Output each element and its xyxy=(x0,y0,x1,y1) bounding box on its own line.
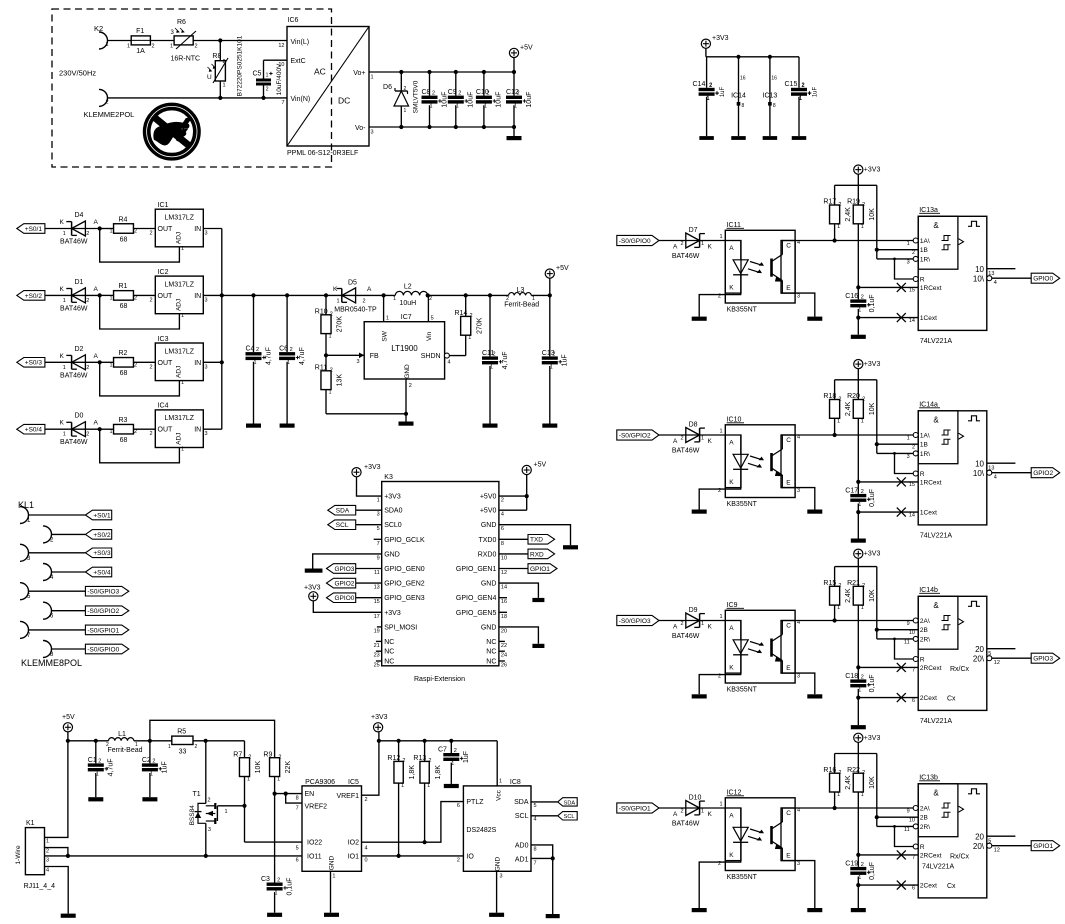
svg-text:R6: R6 xyxy=(177,19,186,26)
svg-text:1Cext: 1Cext xyxy=(920,510,937,517)
svg-text:C15: C15 xyxy=(785,81,798,88)
svg-text:Rx/Cx: Rx/Cx xyxy=(950,853,970,860)
svg-text:R: R xyxy=(920,471,925,478)
svg-text:1-Wire: 1-Wire xyxy=(15,845,22,865)
svg-text:2: 2 xyxy=(330,368,333,374)
svg-text:GPIO_GCLK: GPIO_GCLK xyxy=(384,537,425,544)
svg-text:1: 1 xyxy=(701,809,704,815)
svg-text:4: 4 xyxy=(448,360,451,366)
svg-text:14: 14 xyxy=(909,318,915,324)
svg-text:2: 2 xyxy=(404,86,407,92)
svg-text:2: 2 xyxy=(457,858,460,864)
svg-text:10: 10 xyxy=(975,265,984,274)
svg-text:74LV221A: 74LV221A xyxy=(922,864,955,871)
svg-text:2: 2 xyxy=(428,758,431,764)
svg-text:1: 1 xyxy=(247,777,250,783)
svg-text:K3: K3 xyxy=(384,474,393,481)
svg-text:NC: NC xyxy=(486,659,496,666)
svg-text:10uH: 10uH xyxy=(399,300,416,307)
svg-text:16R-NTC: 16R-NTC xyxy=(171,56,201,63)
svg-text:LM317LZ: LM317LZ xyxy=(165,215,195,222)
svg-text:R: R xyxy=(920,657,925,664)
svg-text:GPIO0: GPIO0 xyxy=(1033,276,1053,283)
svg-text:1: 1 xyxy=(837,792,840,798)
svg-text:2B: 2B xyxy=(920,627,928,634)
svg-text:IC14b: IC14b xyxy=(919,587,938,594)
svg-text:1: 1 xyxy=(63,432,66,438)
svg-text:SMLVT5V0: SMLVT5V0 xyxy=(412,80,419,113)
svg-text:U: U xyxy=(207,74,212,81)
svg-text:Vo-: Vo- xyxy=(355,125,366,132)
svg-text:2: 2 xyxy=(912,444,915,450)
svg-text:IO: IO xyxy=(466,853,474,860)
svg-text:IC4: IC4 xyxy=(158,403,169,410)
svg-text:6: 6 xyxy=(912,885,915,891)
svg-text:10: 10 xyxy=(501,555,507,561)
svg-text:OUT: OUT xyxy=(158,293,174,300)
svg-text:2,4K: 2,4K xyxy=(845,207,852,222)
svg-text:10: 10 xyxy=(975,460,984,469)
svg-text:2: 2 xyxy=(680,436,683,442)
svg-text:IC14a: IC14a xyxy=(919,401,938,408)
svg-text:IN: IN xyxy=(194,293,201,300)
svg-text:2: 2 xyxy=(363,299,366,305)
svg-text:IC2: IC2 xyxy=(158,269,169,276)
svg-text:K: K xyxy=(729,665,734,672)
svg-text:GPIO_GEN2: GPIO_GEN2 xyxy=(384,581,425,588)
svg-text:4: 4 xyxy=(994,475,997,481)
svg-text:2: 2 xyxy=(149,431,152,437)
svg-text:2,4K: 2,4K xyxy=(845,401,852,416)
svg-text:IO1: IO1 xyxy=(348,853,359,860)
svg-text:A: A xyxy=(94,219,99,226)
svg-text:2: 2 xyxy=(86,231,89,237)
svg-text:D9: D9 xyxy=(689,607,698,614)
svg-text:26: 26 xyxy=(501,663,507,669)
svg-text:2RCext: 2RCext xyxy=(920,852,942,859)
svg-text:2: 2 xyxy=(861,862,864,868)
svg-text:K: K xyxy=(60,420,65,427)
svg-text:10\: 10\ xyxy=(973,275,985,284)
svg-text:IC5: IC5 xyxy=(348,779,359,786)
svg-text:1uF: 1uF xyxy=(812,86,818,97)
svg-text:C: C xyxy=(786,810,791,817)
svg-text:IC13: IC13 xyxy=(763,93,778,100)
svg-text:6: 6 xyxy=(912,698,915,704)
svg-text:BAT46W: BAT46W xyxy=(60,439,88,446)
svg-text:1RCext: 1RCext xyxy=(920,285,942,292)
svg-text:C2: C2 xyxy=(142,757,151,764)
svg-text:C19: C19 xyxy=(845,860,858,867)
svg-text:Vin: Vin xyxy=(426,331,433,341)
svg-text:10K: 10K xyxy=(869,402,876,415)
svg-text:8: 8 xyxy=(534,847,537,853)
svg-text:12: 12 xyxy=(994,848,1000,854)
svg-text:2: 2 xyxy=(454,748,457,754)
svg-text:KB355NT: KB355NT xyxy=(727,501,758,508)
svg-text:4: 4 xyxy=(365,846,368,852)
svg-text:SCL: SCL xyxy=(564,814,575,820)
svg-text:2: 2 xyxy=(106,742,109,748)
svg-text:Vin(N): Vin(N) xyxy=(291,96,311,103)
svg-text:+5V: +5V xyxy=(556,265,569,272)
svg-text:1,8K: 1,8K xyxy=(409,765,416,780)
svg-text:R5: R5 xyxy=(177,729,186,736)
svg-text:1: 1 xyxy=(332,874,335,880)
svg-text:R11: R11 xyxy=(315,365,327,372)
svg-text:13: 13 xyxy=(374,585,380,591)
svg-text:3: 3 xyxy=(797,488,800,494)
svg-text:2: 2 xyxy=(46,849,49,855)
svg-text:2: 2 xyxy=(718,294,721,300)
svg-text:4: 4 xyxy=(46,868,49,874)
svg-text:0,1uF: 0,1uF xyxy=(869,862,876,880)
svg-text:F1: F1 xyxy=(136,28,144,35)
svg-text:ADJ: ADJ xyxy=(176,366,183,378)
svg-text:16: 16 xyxy=(740,76,746,82)
svg-text:E: E xyxy=(786,853,791,860)
svg-text:K: K xyxy=(708,811,713,818)
svg-text:D5: D5 xyxy=(348,280,357,287)
svg-text:+3V3: +3V3 xyxy=(384,494,401,501)
svg-text:2: 2 xyxy=(862,770,865,776)
svg-text:+5V: +5V xyxy=(520,45,533,52)
svg-text:2R\: 2R\ xyxy=(920,636,930,643)
svg-text:Rx/Cx: Rx/Cx xyxy=(950,666,970,673)
svg-text:FB: FB xyxy=(370,353,379,360)
svg-text:C18: C18 xyxy=(845,673,858,680)
svg-text:D0: D0 xyxy=(75,413,84,420)
svg-text:E: E xyxy=(786,480,791,487)
svg-text:1: 1 xyxy=(720,429,723,435)
svg-text:3: 3 xyxy=(205,431,208,437)
svg-text:OUT: OUT xyxy=(158,427,174,434)
svg-text:2: 2 xyxy=(718,861,721,867)
svg-text:2: 2 xyxy=(409,383,412,389)
svg-text:K: K xyxy=(729,479,734,486)
svg-text:TXD: TXD xyxy=(530,537,543,544)
svg-text:0,1uF: 0,1uF xyxy=(869,674,876,692)
svg-text:2: 2 xyxy=(838,770,841,776)
svg-text:PCA9306: PCA9306 xyxy=(305,779,335,786)
svg-text:2B: 2B xyxy=(920,815,928,822)
svg-text:9: 9 xyxy=(907,621,910,627)
svg-text:IO22: IO22 xyxy=(307,840,322,847)
svg-text:IN: IN xyxy=(194,427,201,434)
svg-text:14: 14 xyxy=(909,512,915,518)
svg-text:IC13a: IC13a xyxy=(919,207,938,214)
svg-text:GND: GND xyxy=(494,856,501,871)
svg-text:10K: 10K xyxy=(255,761,262,774)
svg-text:-S0/GPIO1: -S0/GPIO1 xyxy=(87,627,119,634)
svg-text:8: 8 xyxy=(742,103,745,109)
svg-text:1: 1 xyxy=(225,809,228,815)
svg-text:2: 2 xyxy=(709,83,712,89)
svg-text:2: 2 xyxy=(290,347,293,353)
svg-text:7: 7 xyxy=(912,855,915,861)
svg-text:SPI_MOSI: SPI_MOSI xyxy=(384,624,417,631)
svg-text:2: 2 xyxy=(248,755,251,761)
svg-text:3: 3 xyxy=(171,30,175,36)
svg-text:&: & xyxy=(933,788,939,797)
svg-text:1: 1 xyxy=(707,96,710,102)
svg-text:7: 7 xyxy=(377,541,380,547)
svg-text:SDA: SDA xyxy=(564,800,576,806)
svg-text:DC: DC xyxy=(338,96,350,106)
svg-text:1: 1 xyxy=(837,605,840,611)
svg-text:L1: L1 xyxy=(118,731,126,738)
svg-text:74LV221A: 74LV221A xyxy=(920,718,953,725)
svg-text:2: 2 xyxy=(402,758,405,764)
svg-text:20\: 20\ xyxy=(973,655,985,664)
svg-text:2: 2 xyxy=(149,364,152,370)
svg-text:R21: R21 xyxy=(847,580,860,587)
svg-text:-S0/GPIO3: -S0/GPIO3 xyxy=(619,618,651,625)
svg-text:2: 2 xyxy=(517,91,520,97)
svg-text:2: 2 xyxy=(152,758,155,764)
svg-text:2: 2 xyxy=(208,797,211,803)
svg-text:A: A xyxy=(729,440,734,447)
svg-text:IC9: IC9 xyxy=(727,602,738,609)
svg-text:K: K xyxy=(708,624,713,631)
svg-text:K: K xyxy=(729,285,734,292)
svg-text:12: 12 xyxy=(994,660,1000,666)
svg-text:R8: R8 xyxy=(212,53,221,60)
svg-text:10K: 10K xyxy=(869,776,876,789)
svg-text:2: 2 xyxy=(98,758,101,764)
svg-text:8: 8 xyxy=(773,103,776,109)
svg-text:NC: NC xyxy=(384,639,394,646)
svg-text:-S0/GPIO3: -S0/GPIO3 xyxy=(87,589,119,596)
svg-text:1: 1 xyxy=(181,447,184,453)
svg-text:2: 2 xyxy=(680,621,683,627)
svg-text:20: 20 xyxy=(975,833,984,842)
svg-text:20: 20 xyxy=(975,645,984,654)
svg-text:1RCext: 1RCext xyxy=(920,479,942,486)
svg-text:NC: NC xyxy=(486,639,496,646)
svg-text:+S0/4: +S0/4 xyxy=(93,569,111,576)
svg-text:KB355NT: KB355NT xyxy=(727,874,758,881)
svg-text:GND: GND xyxy=(384,551,400,558)
svg-text:L2: L2 xyxy=(404,284,412,291)
svg-text:15: 15 xyxy=(374,599,380,605)
svg-text:NC: NC xyxy=(486,649,496,656)
svg-text:2: 2 xyxy=(429,296,432,302)
svg-text:C8: C8 xyxy=(422,89,431,96)
svg-text:10: 10 xyxy=(909,630,915,636)
svg-text:K: K xyxy=(60,219,65,226)
svg-text:A: A xyxy=(367,286,372,293)
svg-text:+S0/2: +S0/2 xyxy=(25,293,43,300)
svg-text:2: 2 xyxy=(501,498,504,504)
svg-text:LT1900: LT1900 xyxy=(391,344,418,353)
svg-text:2: 2 xyxy=(718,488,721,494)
svg-text:1: 1 xyxy=(799,96,802,102)
svg-text:C4: C4 xyxy=(246,346,255,353)
svg-text:2: 2 xyxy=(862,396,865,402)
svg-text:1B: 1B xyxy=(920,442,928,449)
svg-text:7: 7 xyxy=(534,861,537,867)
svg-text:D2: D2 xyxy=(75,346,84,353)
svg-text:0,1uF: 0,1uF xyxy=(869,294,876,312)
svg-text:2: 2 xyxy=(86,432,89,438)
svg-text:SHDN: SHDN xyxy=(421,353,441,360)
svg-text:+S0/1: +S0/1 xyxy=(25,226,43,233)
svg-text:25: 25 xyxy=(374,663,380,669)
svg-text:D1: D1 xyxy=(75,279,84,286)
svg-text:A: A xyxy=(94,420,99,427)
svg-text:1A\: 1A\ xyxy=(920,433,930,440)
svg-text:0,1uF: 0,1uF xyxy=(869,489,876,507)
svg-text:2: 2 xyxy=(278,755,281,761)
svg-text:VREF1: VREF1 xyxy=(336,793,359,800)
svg-text:15: 15 xyxy=(909,482,915,488)
svg-text:12: 12 xyxy=(501,570,507,576)
svg-text:RXD: RXD xyxy=(530,551,544,558)
svg-text:1A: 1A xyxy=(136,48,145,55)
svg-text:MBR0540-TP: MBR0540-TP xyxy=(334,307,377,314)
svg-text:4: 4 xyxy=(501,512,504,518)
svg-text:SW: SW xyxy=(381,330,388,341)
svg-text:1: 1 xyxy=(837,224,840,230)
svg-text:4: 4 xyxy=(994,280,997,286)
svg-text:R18: R18 xyxy=(823,393,836,400)
svg-text:1: 1 xyxy=(499,779,502,785)
svg-text:3: 3 xyxy=(500,874,503,880)
svg-text:20: 20 xyxy=(501,628,507,634)
svg-text:10uF: 10uF xyxy=(526,92,533,108)
svg-text:1A\: 1A\ xyxy=(920,238,930,245)
svg-text:L3: L3 xyxy=(517,287,525,294)
svg-text:IC10: IC10 xyxy=(727,416,742,423)
svg-text:7: 7 xyxy=(281,100,284,106)
svg-text:4,7uF: 4,7uF xyxy=(108,758,115,776)
svg-text:1: 1 xyxy=(393,296,396,302)
svg-text:+5V0: +5V0 xyxy=(480,508,497,515)
svg-text:4: 4 xyxy=(534,817,537,823)
svg-text:KB355NT: KB355NT xyxy=(727,307,758,314)
svg-text:GPIO2: GPIO2 xyxy=(335,581,355,588)
svg-text:4,7uF: 4,7uF xyxy=(265,347,272,365)
svg-text:R22: R22 xyxy=(847,767,860,774)
svg-text:IC14: IC14 xyxy=(731,93,746,100)
svg-text:16: 16 xyxy=(771,76,777,82)
svg-text:BAT46W: BAT46W xyxy=(672,448,700,455)
svg-text:3: 3 xyxy=(797,861,800,867)
svg-text:GPIO0: GPIO0 xyxy=(335,595,355,602)
svg-text:1R\: 1R\ xyxy=(920,256,930,263)
svg-text:C17: C17 xyxy=(845,487,858,494)
svg-text:&: & xyxy=(933,221,939,230)
svg-text:Cx: Cx xyxy=(947,883,956,890)
svg-text:2: 2 xyxy=(134,295,137,301)
svg-text:2A\: 2A\ xyxy=(920,618,930,625)
svg-text:1: 1 xyxy=(720,614,723,620)
svg-text:ADJ: ADJ xyxy=(176,433,183,445)
svg-text:R1: R1 xyxy=(119,283,128,290)
svg-text:9: 9 xyxy=(377,555,380,561)
svg-text:1uF: 1uF xyxy=(720,86,726,97)
svg-text:2: 2 xyxy=(552,351,555,357)
svg-text:IC12: IC12 xyxy=(727,789,742,796)
svg-text:OUT: OUT xyxy=(158,226,174,233)
svg-text:3: 3 xyxy=(797,294,800,300)
svg-text:A: A xyxy=(729,245,734,252)
svg-text:11: 11 xyxy=(904,827,910,833)
svg-text:2R\: 2R\ xyxy=(920,824,930,831)
svg-text:74LV221A: 74LV221A xyxy=(920,532,953,539)
svg-text:C: C xyxy=(786,623,791,630)
svg-text:6: 6 xyxy=(457,803,460,809)
svg-text:R: R xyxy=(920,277,925,284)
svg-text:4,7uF: 4,7uF xyxy=(502,351,509,369)
svg-text:1,8K: 1,8K xyxy=(435,765,442,780)
svg-text:SCL: SCL xyxy=(336,522,349,529)
svg-text:1: 1 xyxy=(371,75,374,81)
svg-text:2: 2 xyxy=(802,83,805,89)
svg-text:1: 1 xyxy=(223,83,226,89)
svg-text:1: 1 xyxy=(266,73,269,79)
svg-text:C: C xyxy=(786,437,791,444)
svg-text:1: 1 xyxy=(110,429,113,435)
svg-text:2RCext: 2RCext xyxy=(920,665,942,672)
svg-text:GND: GND xyxy=(481,624,497,631)
svg-text:GPIO3: GPIO3 xyxy=(335,566,355,573)
svg-text:10K: 10K xyxy=(869,208,876,221)
svg-text:10: 10 xyxy=(278,62,284,68)
svg-text:BAT46W: BAT46W xyxy=(60,305,88,312)
svg-text:-S0/GPIO2: -S0/GPIO2 xyxy=(87,608,119,615)
svg-text:1: 1 xyxy=(170,44,173,50)
svg-text:PPML 06-S12-0R3ELF: PPML 06-S12-0R3ELF xyxy=(287,150,358,157)
svg-text:NC: NC xyxy=(384,659,394,666)
svg-text:C7: C7 xyxy=(438,746,447,753)
svg-text:3: 3 xyxy=(205,364,208,370)
svg-text:10K: 10K xyxy=(869,589,876,602)
svg-text:1: 1 xyxy=(837,418,840,424)
svg-text:1: 1 xyxy=(701,621,704,627)
svg-text:IC6: IC6 xyxy=(288,17,299,24)
svg-text:1: 1 xyxy=(701,241,704,247)
svg-text:+S0/3: +S0/3 xyxy=(93,550,111,557)
svg-text:SCL0: SCL0 xyxy=(384,522,402,529)
svg-text:1: 1 xyxy=(106,42,109,48)
svg-text:GPIO_GEN1: GPIO_GEN1 xyxy=(456,566,497,573)
svg-text:2: 2 xyxy=(134,362,137,368)
svg-text:+3V3: +3V3 xyxy=(864,551,881,558)
svg-text:GPIO_GEN4: GPIO_GEN4 xyxy=(456,595,497,602)
svg-text:C: C xyxy=(786,243,791,250)
svg-text:13K: 13K xyxy=(337,374,344,387)
svg-text:2: 2 xyxy=(912,250,915,256)
svg-text:IN: IN xyxy=(194,360,201,367)
svg-text:1: 1 xyxy=(468,335,471,341)
svg-text:A: A xyxy=(729,625,734,632)
svg-text:8: 8 xyxy=(501,541,504,547)
svg-text:5: 5 xyxy=(377,526,380,532)
svg-text:11: 11 xyxy=(904,639,910,645)
svg-text:IC8: IC8 xyxy=(510,779,521,786)
svg-text:1: 1 xyxy=(63,298,66,304)
svg-text:5: 5 xyxy=(27,594,31,600)
svg-text:6: 6 xyxy=(501,526,504,532)
svg-text:GND: GND xyxy=(481,581,497,588)
svg-text:SDA: SDA xyxy=(336,508,350,515)
svg-text:-S0/GPIO0: -S0/GPIO0 xyxy=(619,238,651,245)
svg-text:AD1: AD1 xyxy=(515,857,529,864)
svg-text:K: K xyxy=(729,852,734,859)
svg-text:B72220PS0251K101: B72220PS0251K101 xyxy=(237,35,244,96)
